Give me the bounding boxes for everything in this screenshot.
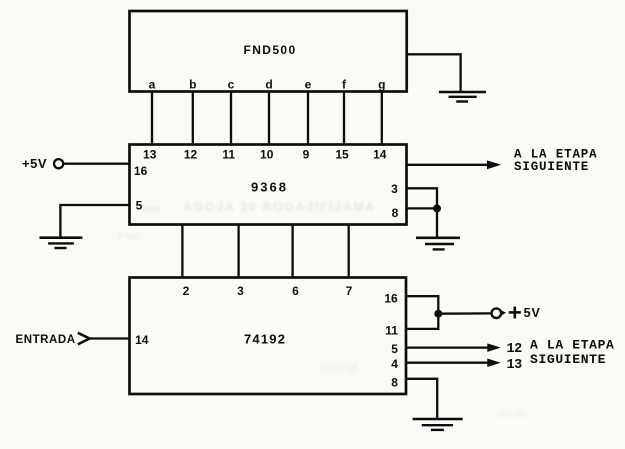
svg-text:A LA ETAPA: A LA ETAPA <box>530 338 615 353</box>
wire segment e: FND500 e to 9368 pin 9 <box>307 92 309 145</box>
svg-text:11: 11 <box>385 324 398 338</box>
wire: 74192 to 9368, pin 2 line <box>181 225 183 278</box>
svg-text:14: 14 <box>135 333 149 347</box>
label +5V (counter supply) <box>509 306 541 320</box>
wire segment a: FND500 a to 9368 pin 13 <box>151 92 153 145</box>
svg-text:e: e <box>305 78 312 92</box>
svg-text:5: 5 <box>136 198 143 212</box>
svg-text:1UO 18: 1UO 18 <box>320 363 358 375</box>
wire: 9368 pin 8 to junction J1 <box>407 207 438 209</box>
svg-text:16: 16 <box>134 164 148 178</box>
svg-text:SIGUIENTE: SIGUIENTE <box>514 160 589 174</box>
label A LA ETAPA SIGUIENTE (upper) <box>514 148 598 174</box>
svg-text:g: g <box>378 78 385 92</box>
svg-text:a: a <box>149 78 156 92</box>
wire: 74192 pin 4 to next stage with arrow <box>406 359 501 368</box>
wire segment f: FND500 f to 9368 pin 15 <box>343 92 345 145</box>
label A LA ETAPA SIGUIENTE (lower) <box>530 338 615 367</box>
wire: +5V terminal to 9368 pin 16 <box>63 163 129 165</box>
svg-text:PNA: PNA <box>118 231 141 243</box>
svg-text:15: 15 <box>335 148 349 162</box>
wire segment g: FND500 g to 9368 pin 14 <box>381 92 383 145</box>
ground G1 <box>439 92 486 102</box>
wire: 74192 pin 8 to ground G4 <box>406 379 437 419</box>
wire: junction J1 to ground G3 <box>436 208 438 237</box>
svg-text:10: 10 <box>260 148 274 162</box>
svg-text:NM: NM <box>143 204 160 216</box>
wire segment d: FND500 d to 9368 pin 10 <box>268 92 270 145</box>
ground G2 <box>40 238 83 248</box>
svg-text:4: 4 <box>391 357 398 371</box>
IC U1 9368 BCD to 7-segment decoder <box>130 145 407 225</box>
junction J1 <box>433 204 441 212</box>
wire segment c: FND500 c to 9368 pin 11 <box>230 92 232 145</box>
wire: 74192 pin 11 to junction J2 <box>406 314 438 329</box>
svg-text:5V: 5V <box>524 306 541 320</box>
svg-text:FND500: FND500 <box>244 43 297 57</box>
wire: junction J2 to +5V terminal <box>438 312 491 315</box>
svg-text:ENTRADA: ENTRADA <box>16 334 76 346</box>
wire: 74192 pin 5 to next stage with arrow <box>406 343 501 352</box>
IC DIS1 FND500 seven-segment display <box>130 11 407 92</box>
ground G3 <box>416 238 460 250</box>
wire: 9368 pin 3 to junction J1 <box>407 188 438 208</box>
svg-text:6: 6 <box>292 284 299 298</box>
svg-text:3: 3 <box>391 182 398 196</box>
svg-text:7: 7 <box>346 284 353 298</box>
wire: 9368 output to next stage with arrow <box>407 160 502 169</box>
svg-text:d: d <box>265 78 272 92</box>
svg-text:5: 5 <box>391 342 398 356</box>
svg-text:c: c <box>228 78 235 92</box>
svg-text:16: 16 <box>384 292 398 306</box>
svg-text:14: 14 <box>373 148 387 162</box>
terminal +5V circle <box>54 159 63 168</box>
wire: 74192 pin 16 to junction J2 <box>406 296 438 314</box>
ground G4 <box>413 419 463 430</box>
svg-text:8: 8 <box>392 206 399 220</box>
terminal +5V circle (counter supply) <box>492 308 507 318</box>
svg-text:im sb: im sb <box>498 409 527 421</box>
svg-text:+5V: +5V <box>22 156 47 171</box>
svg-text:12: 12 <box>507 342 523 357</box>
IC U2 74192 up/down counter <box>130 278 407 395</box>
svg-text:AGOJA 30 ROGAJIFIJAMA: AGOJA 30 ROGAJIFIJAMA <box>183 200 376 214</box>
wire: ENTRADA to 74192 pin 14 <box>90 337 130 339</box>
wire: 9368 pin 5 to ground G2 <box>60 205 129 238</box>
wire: 74192 to 9368, pin 6 line <box>291 225 293 278</box>
svg-text:8: 8 <box>391 376 398 390</box>
svg-text:13: 13 <box>507 358 523 373</box>
svg-text:12: 12 <box>184 148 198 162</box>
input chevron arrow <box>78 333 90 345</box>
svg-text:74192: 74192 <box>244 332 286 347</box>
svg-text:3: 3 <box>237 284 244 298</box>
svg-text:2: 2 <box>183 284 190 298</box>
svg-text:b: b <box>189 78 196 92</box>
svg-text:9: 9 <box>303 148 310 162</box>
wire segment b: FND500 b to 9368 pin 12 <box>192 92 194 145</box>
wire: 74192 to 9368, pin 3 line <box>237 225 239 278</box>
svg-text:SIGUIENTE: SIGUIENTE <box>530 352 606 367</box>
svg-text:13: 13 <box>143 148 157 162</box>
svg-text:9368: 9368 <box>251 179 288 194</box>
wire: 74192 to 9368, pin 7 line <box>348 225 350 278</box>
wire: FND500 common pin to ground G1 <box>407 54 461 92</box>
svg-text:11: 11 <box>222 148 235 162</box>
junction J2 <box>434 310 442 318</box>
